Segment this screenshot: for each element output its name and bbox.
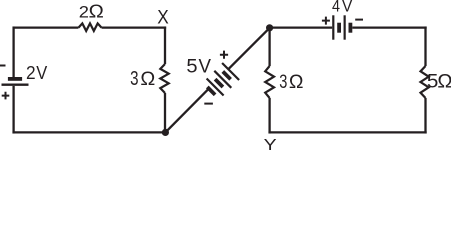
wire: left loop bottom	[12, 131, 165, 133]
label: 4V value of battery B3	[332, 0, 353, 16]
minus sign of battery B1	[0, 65, 6, 67]
svg-text:Y: Y	[264, 137, 277, 151]
svg-text:3: 3	[279, 72, 287, 93]
svg-text:Ω: Ω	[437, 72, 451, 93]
wire: right loop right side, lower segment	[424, 98, 426, 134]
wire: left loop right side, lower segment to bottom junction	[164, 93, 166, 132]
label: 5V value of battery B2	[186, 56, 211, 77]
label: 5Ω value of resistor R4	[427, 72, 451, 93]
wire: right loop top, left segment to battery B3	[270, 26, 333, 28]
label: 3Ω value of resistor R2	[130, 68, 155, 90]
wire: right loop left side, lower segment	[268, 98, 270, 134]
resistor R4 5Ω (vertical zigzag, right side of right loop)	[421, 66, 429, 98]
svg-text:V: V	[199, 56, 212, 77]
battery B2 5V: short plate 4 (thick)	[215, 79, 223, 87]
battery B1 2V: long positive plate (bottom)	[2, 84, 29, 86]
wire: right loop right side, upper segment	[424, 26, 426, 66]
junction dot: node between left loop and diagonal (bottom)	[162, 129, 169, 136]
battery B2 5V: long plate 5	[207, 79, 224, 96]
battery B3 4V: long plate	[344, 15, 346, 39]
svg-text:V: V	[342, 0, 353, 16]
resistor R3 3Ω (vertical zigzag, left side of right loop)	[265, 66, 274, 98]
resistor R1 2Ω (horizontal zigzag, top wire of left loop)	[79, 23, 102, 31]
resistor R2 3Ω (vertical zigzag, right side of left loop)	[160, 64, 168, 93]
wire: right loop bottom	[268, 131, 426, 133]
svg-text:Ω: Ω	[140, 68, 155, 90]
svg-text:Ω: Ω	[89, 2, 104, 22]
battery B1 2V: short negative plate (top, thick)	[8, 77, 22, 81]
svg-text:Ω: Ω	[289, 72, 304, 93]
battery B2 5V: short plate 6 (negative end, thick)	[207, 87, 215, 95]
label: 2Ω value of resistor R1	[79, 2, 104, 22]
battery B2 5V: short plate 2 (thick)	[223, 72, 231, 80]
svg-text:X: X	[157, 7, 169, 28]
svg-text:4: 4	[332, 0, 340, 16]
junction dot: node between diagonal and right loop (top)	[266, 24, 273, 31]
plus sign of battery B3	[322, 17, 330, 25]
battery B3 4V: short negative plate (right, thick)	[348, 23, 352, 33]
plus sign of battery B2	[220, 51, 228, 59]
svg-text:2: 2	[79, 4, 89, 22]
wire: right loop left side, upper segment to top junction	[268, 28, 270, 66]
minus sign of battery B3	[355, 19, 363, 21]
battery B3 4V: short plate (thick)	[337, 23, 341, 33]
label: 3Ω value of resistor R3	[279, 72, 303, 93]
battery B3 4V: long positive plate (left)	[332, 15, 334, 39]
battery B2 5V: long plate 1 (positive end)	[222, 63, 239, 80]
wire: left loop left side, lower segment (below battery)	[12, 86, 14, 134]
svg-text:2: 2	[26, 63, 36, 83]
wire: right loop top, right segment	[352, 26, 426, 28]
wire: diagonal upper segment from battery B2 to top junction	[228, 28, 269, 69]
svg-text:V: V	[36, 63, 47, 83]
battery B2 5V: long plate 3	[214, 71, 231, 88]
wire: left loop left side, upper segment (above battery)	[12, 26, 14, 77]
plus sign of battery B1	[2, 92, 10, 100]
wire: diagonal lower segment from bottom junction to battery B2	[165, 89, 208, 133]
label: 2V value of battery B1	[26, 63, 47, 83]
wire: left loop right side, upper segment	[164, 26, 166, 64]
svg-text:5: 5	[186, 56, 197, 77]
wire: left loop top, left segment	[14, 26, 79, 28]
minus sign of battery B2	[204, 103, 213, 105]
svg-text:3: 3	[130, 68, 138, 90]
wire: left loop top, right segment to node X corner	[102, 26, 167, 28]
